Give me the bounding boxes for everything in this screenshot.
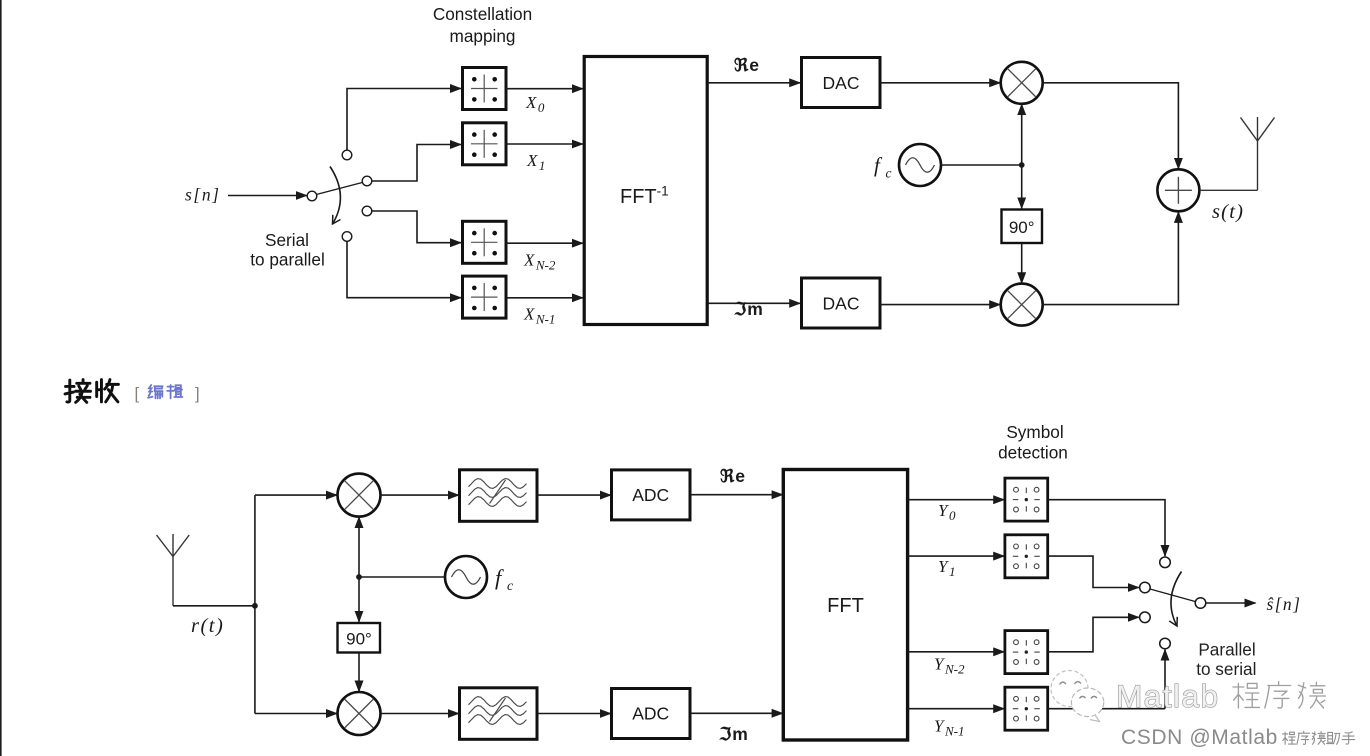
wire carrier up into MX3: [358, 517, 360, 577]
credit char 猿: [1312, 732, 1325, 745]
wire FFT to detector D2: [908, 555, 1005, 557]
switch SW2 contact B: [1140, 582, 1151, 593]
block ADC1: [612, 470, 691, 520]
svg-text:ℜe: ℜe: [734, 55, 760, 75]
svg-text:Parallel: Parallel: [1198, 640, 1255, 660]
svg-text:Matlab: Matlab: [1116, 678, 1220, 714]
wire FFT to detector D4: [908, 708, 1005, 710]
svg-text:ℜe: ℜe: [720, 466, 746, 486]
wire M1 to FFT-1: [506, 88, 583, 90]
mixer MX2: [1001, 284, 1043, 326]
constellation mapper M4: [463, 276, 507, 318]
svg-text:ADC: ADC: [632, 485, 669, 505]
symbol detector D3: [1005, 631, 1048, 674]
wire bus to mixer MX4: [255, 713, 337, 715]
switch SW2 output contact: [1195, 598, 1206, 609]
svg-text:to parallel: to parallel: [250, 250, 325, 270]
wire bus to mixer MX3: [255, 494, 337, 496]
switch SW1 contact 2: [362, 176, 372, 186]
wire DAC1 to mixer MX1: [880, 82, 1000, 84]
svg-text:detection: detection: [998, 443, 1068, 463]
antenna (transmitter): [1241, 117, 1275, 190]
switch SW2 contact A: [1160, 557, 1171, 568]
wire up into contact D: [1164, 650, 1166, 709]
svg-text:c: c: [886, 166, 892, 181]
svg-text:ŝ[n]: ŝ[n]: [1267, 594, 1302, 614]
watermark wechat icon big bubble: [1051, 671, 1088, 707]
wire input bus vertical: [254, 495, 256, 713]
block DAC1: [802, 58, 881, 108]
switch SW2 rotation arc arrow: [1171, 572, 1182, 627]
symbol detector D4: [1005, 687, 1048, 730]
svg-text:DAC: DAC: [823, 73, 860, 93]
wire M2 to FFT-1: [506, 143, 583, 145]
wire switch output to s^[n]: [1206, 602, 1256, 604]
wire contact2 to mapper M2: [372, 145, 461, 182]
wire D4 to switch contact D: [1048, 708, 1165, 710]
constellation mapper M1: [463, 68, 507, 110]
block FFT-1 (IFFT): [584, 57, 707, 325]
oscillator fc (transmitter): [899, 144, 941, 186]
oscillator fc (receiver): [445, 556, 487, 598]
wire oscillator to junction: [941, 164, 1022, 166]
wire MX1 to summer: [1043, 83, 1179, 169]
switch SW1 input contact: [307, 191, 317, 201]
credit char 手: [1342, 732, 1354, 744]
constellation mapper M2: [463, 123, 507, 165]
credit char 助: [1327, 732, 1340, 744]
left page border: [0, 0, 2, 756]
edit link char 编: [148, 385, 163, 398]
svg-text:]: ]: [195, 385, 200, 403]
heading char 接: [65, 380, 90, 403]
filter F2 (lowpass): [460, 688, 538, 740]
wire D3 to switch contact C: [1048, 617, 1139, 652]
svg-text:c: c: [507, 579, 514, 594]
heading char 收: [97, 380, 119, 402]
watermark char 猿: [1298, 682, 1325, 708]
antenna (receiver): [157, 534, 190, 606]
wire 90deg to mixer MX4: [358, 653, 360, 692]
wire ADC2 to FFT: [690, 712, 783, 714]
svg-text:90°: 90°: [1009, 218, 1035, 237]
svg-text:r(t): r(t): [191, 615, 224, 637]
edit link char 辑: [167, 385, 182, 398]
junction carrier node: [1019, 162, 1025, 168]
watermark char 序: [1265, 682, 1291, 708]
wire junction down to 90deg: [1021, 165, 1023, 208]
wire D1 to switch contact A: [1048, 500, 1165, 556]
block FFT: [783, 470, 907, 741]
switch SW2 arm: [1150, 589, 1196, 602]
symbol detector D2: [1005, 535, 1048, 578]
watermark wechat icon small bubble: [1071, 688, 1103, 722]
wire D2 to switch contact B: [1048, 556, 1139, 587]
wire DAC2 to mixer MX2: [880, 304, 1000, 306]
block 90deg phase shifter (transmitter): [1002, 210, 1043, 244]
constellation mapper M3: [463, 221, 507, 263]
mixer MX1: [1001, 62, 1043, 104]
symbol detector D1: [1005, 478, 1048, 521]
junction antenna node: [252, 603, 258, 609]
block DAC2: [802, 278, 881, 328]
wire MX4 to filter F2: [381, 713, 459, 715]
svg-text:s(t): s(t): [1212, 201, 1244, 223]
wire FFT-1 Re out to DAC1: [708, 82, 801, 84]
switch SW2 contact C: [1140, 612, 1151, 623]
svg-text:[: [: [135, 385, 140, 403]
svg-text:mapping: mapping: [450, 26, 516, 46]
svg-text:Serial: Serial: [265, 230, 309, 250]
wire junction down to 90deg (receiver): [358, 577, 360, 622]
svg-text:90°: 90°: [346, 630, 372, 649]
watermark char 程: [1233, 683, 1259, 708]
switch SW1 arm: [317, 183, 362, 195]
svg-text:CSDN @Matlab: CSDN @Matlab: [1121, 726, 1278, 749]
wire MX2 to summer: [1043, 212, 1179, 305]
wire ADC1 to FFT: [690, 494, 783, 496]
wire contact3 to mapper M3: [372, 211, 461, 243]
svg-text:ℑm: ℑm: [718, 724, 749, 744]
switch SW2 contact D: [1160, 638, 1171, 649]
wire summer to antenna: [1200, 189, 1258, 191]
wire carrier up into MX1: [1021, 104, 1023, 165]
svg-text:FFT: FFT: [827, 595, 864, 617]
switch SW1 rotation arc arrow: [330, 167, 340, 225]
switch SW1 contact 4: [342, 232, 352, 242]
svg-text:Symbol: Symbol: [1006, 422, 1063, 442]
summer S1: [1157, 169, 1199, 211]
wire s[n] to switch input: [228, 195, 307, 197]
wire junction to oscillator: [359, 576, 445, 578]
svg-text:ADC: ADC: [632, 704, 669, 724]
wire M4 to FFT-1: [506, 297, 583, 299]
wire contact4 to mapper M4: [347, 241, 461, 297]
svg-text:Constellation: Constellation: [433, 4, 532, 24]
wire M3 to FFT-1: [506, 242, 583, 244]
filter F1 (lowpass): [460, 470, 538, 522]
svg-text:to serial: to serial: [1196, 659, 1256, 679]
wire 90deg to mixer MX2: [1021, 243, 1023, 283]
credit char 程: [1282, 732, 1295, 744]
svg-text:s[n]: s[n]: [185, 185, 221, 205]
svg-text:DAC: DAC: [823, 294, 860, 314]
wire F2 to ADC2: [537, 713, 611, 715]
junction carrier node (receiver): [356, 574, 362, 580]
wire contact1 to mapper M1: [347, 89, 461, 151]
switch SW1 contact 3: [362, 206, 372, 216]
mixer MX3: [338, 474, 381, 517]
mixer MX4: [338, 692, 381, 735]
block ADC2: [612, 689, 691, 739]
wire MX3 to filter F1: [381, 494, 459, 496]
svg-text:ℑm: ℑm: [733, 299, 764, 319]
wire FFT-1 Im out to DAC2: [708, 302, 801, 304]
credit char 序: [1297, 731, 1310, 744]
wire FFT to detector D1: [908, 499, 1005, 501]
wire antenna to bus: [173, 605, 255, 607]
block 90deg phase shifter (receiver): [338, 623, 381, 653]
wire F1 to ADC1: [537, 494, 611, 496]
wire FFT to detector D3: [908, 651, 1005, 653]
switch SW1 contact 1: [342, 150, 352, 160]
